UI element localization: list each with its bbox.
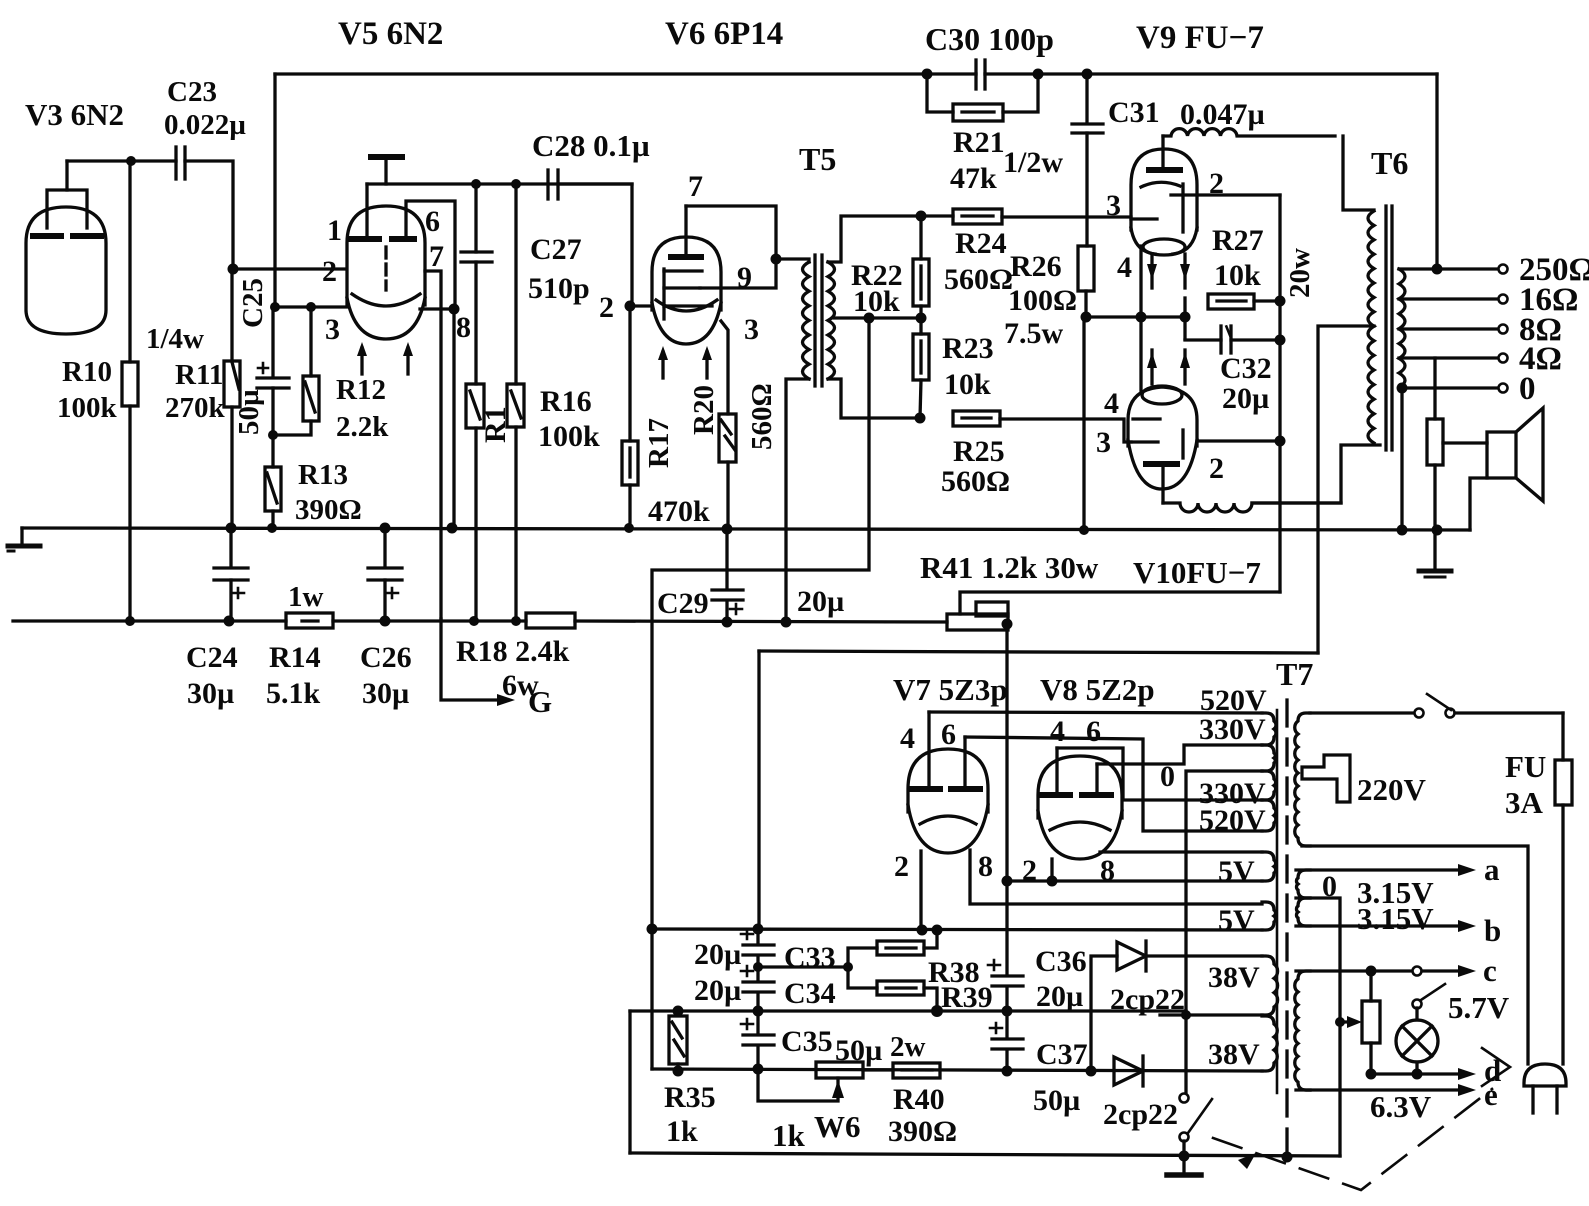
tube V6 cathode arc xyxy=(656,300,717,311)
wire V5 cathode (pin3) line xyxy=(275,305,347,308)
svg-text:1: 1 xyxy=(327,214,342,247)
wire V3 anode to C23 xyxy=(67,159,176,162)
wire V8 pin4 to 330V lower tap xyxy=(1057,748,1262,800)
svg-text:T6: T6 xyxy=(1371,145,1408,181)
svg-text:560Ω: 560Ω xyxy=(941,465,1010,498)
wire T5 secondary top lead xyxy=(828,216,921,262)
voltage selector plug 220V xyxy=(1302,755,1427,807)
svg-text:C33: C33 xyxy=(784,941,836,974)
svg-text:2cp22: 2cp22 xyxy=(1103,1098,1178,1131)
wire lamp tap d xyxy=(1366,1053,1502,1088)
resistor R35 1k xyxy=(664,1016,716,1148)
switch HT secondary bottom xyxy=(1180,1094,1213,1158)
transformer T6 secondary winding xyxy=(1399,269,1405,388)
wire V8 filament output line xyxy=(1007,879,1262,882)
svg-text:1k: 1k xyxy=(666,1115,698,1148)
svg-text:R35: R35 xyxy=(664,1081,716,1114)
svg-text:V5 6N2: V5 6N2 xyxy=(338,16,443,52)
wire T5 secondary bottom lead xyxy=(828,379,920,418)
tube V9 envelope xyxy=(1131,149,1197,255)
tube V6 heater arrows xyxy=(658,346,712,378)
svg-text:10k: 10k xyxy=(1214,259,1261,292)
pilot lamp xyxy=(1396,1008,1438,1074)
resistor R13 390 ohm xyxy=(265,435,362,528)
wire V7 pin6 to 520V lower tap xyxy=(965,737,1262,831)
wire output tap 16 ohm xyxy=(1399,282,1578,318)
tube V9 grid arc xyxy=(1141,182,1180,187)
wire V5 grid (pin2) line xyxy=(233,267,346,270)
wire screen line V9/V10 pin2 xyxy=(1278,195,1281,592)
resistor R14 5.1k 1w xyxy=(266,581,333,710)
capacitor C34 20µ xyxy=(694,966,836,1011)
tube V5 grid dashes xyxy=(384,247,387,290)
svg-text:100k: 100k xyxy=(57,392,118,424)
tube V5 envelope xyxy=(347,206,425,339)
capacitor C24 30µ xyxy=(186,528,248,710)
svg-text:V8 5Z2p: V8 5Z2p xyxy=(1040,672,1155,707)
svg-text:20µ: 20µ xyxy=(797,585,844,618)
svg-text:2: 2 xyxy=(1209,452,1224,485)
tube V9 anode bar xyxy=(1149,136,1180,170)
ground symbol speaker xyxy=(1419,530,1451,577)
wire C23 to grid line xyxy=(185,161,233,269)
tube V3 plate structure xyxy=(33,161,101,236)
svg-text:R25: R25 xyxy=(953,435,1005,468)
wire output tap 250 ohm xyxy=(1399,74,1589,288)
wire screen feed line to R41 tap xyxy=(960,592,1280,614)
svg-text:2: 2 xyxy=(1209,167,1224,200)
wire heater tap a xyxy=(1296,852,1500,887)
tube V5 plate pin1 xyxy=(327,184,379,247)
transformer T6 primary winding xyxy=(1368,211,1374,443)
wire primary bottom to plug xyxy=(1302,846,1528,1064)
wire feedback from top rail to V5 cathode line xyxy=(273,74,276,307)
capacitor C31 0.047µ xyxy=(1072,74,1265,246)
svg-text:R12: R12 xyxy=(336,374,386,406)
transformer T5 secondary winding xyxy=(828,262,835,379)
svg-text:2: 2 xyxy=(322,255,337,288)
transformer T7 primary 220V winding xyxy=(1295,713,1310,846)
tube V10 envelope xyxy=(1128,386,1197,489)
svg-text:1/4w: 1/4w xyxy=(146,323,204,355)
wire T6 primary center tap to B+ xyxy=(1318,326,1374,653)
wire 3.15V center tap 0 xyxy=(1296,898,1340,1156)
capacitor C25 50µ xyxy=(233,278,289,435)
transformer T5 core xyxy=(815,255,822,386)
svg-text:2w: 2w xyxy=(890,1031,926,1063)
tube V10 cathode bar xyxy=(1133,417,1160,420)
svg-text:V9 FU−7: V9 FU−7 xyxy=(1136,20,1264,56)
wire 6.3V top tap c xyxy=(1296,953,1497,988)
tube V10 heater-cathode stubs pin4 xyxy=(1104,317,1190,420)
svg-text:8: 8 xyxy=(456,311,471,344)
fuse FU 3A xyxy=(1505,713,1572,1064)
svg-text:R17: R17 xyxy=(643,418,675,468)
wire pin7 down to G arrow xyxy=(441,619,497,700)
tube V5 heater arrows xyxy=(357,342,413,374)
mains switch xyxy=(1415,694,1564,718)
svg-text:20µ: 20µ xyxy=(1222,382,1269,415)
svg-text:0.047µ: 0.047µ xyxy=(1180,98,1265,131)
svg-text:6: 6 xyxy=(425,205,440,238)
svg-text:C32: C32 xyxy=(1220,352,1272,385)
svg-text:T5: T5 xyxy=(799,141,836,177)
svg-text:3: 3 xyxy=(1096,426,1111,459)
transformer T7 core dashed xyxy=(1285,700,1288,1157)
B+ rail (lower left) xyxy=(13,621,947,622)
resistor R25 560 ohm xyxy=(941,411,1131,498)
tube V7 anode bars pins 4,6 xyxy=(900,718,980,789)
svg-text:C29: C29 xyxy=(657,587,709,620)
resistor R22 10k xyxy=(851,216,929,318)
wire R41 output down to V8 filament xyxy=(1005,712,1008,881)
switch pilot lamp 5.7V xyxy=(1413,984,1510,1025)
capacitor C29 20µ xyxy=(657,529,844,622)
svg-text:R18 2.4k: R18 2.4k xyxy=(456,635,570,668)
wire bias rail xyxy=(652,1069,1262,1071)
bottom rail xyxy=(630,1153,1340,1156)
svg-text:FU: FU xyxy=(1505,749,1546,784)
tube V9 grid pin2 wire xyxy=(1171,167,1280,200)
svg-text:220V: 220V xyxy=(1357,772,1427,807)
tube V9 pin3 bar and wire xyxy=(1106,184,1183,232)
wire V8 pin6 to 330V upper tap xyxy=(1097,745,1262,764)
svg-text:50µ: 50µ xyxy=(233,389,265,435)
svg-text:R41 1.2k 30w: R41 1.2k 30w xyxy=(920,550,1099,585)
transformer T7 HV winding upper xyxy=(1262,713,1276,745)
svg-text:30µ: 30µ xyxy=(362,677,409,710)
capacitor C27 510p xyxy=(461,184,590,384)
mains plug xyxy=(1524,1064,1566,1113)
svg-text:C27: C27 xyxy=(530,233,582,266)
transformer T5 primary winding xyxy=(776,259,809,262)
capacitor C36 20µ xyxy=(988,881,1087,1013)
tube V6 envelope xyxy=(652,237,721,344)
transformer T7 HV winding lower xyxy=(1262,771,1276,800)
tube V7 envelope xyxy=(908,749,988,853)
ground symbol bottom xyxy=(1167,1156,1201,1175)
capacitor C28 0.1µ xyxy=(532,128,650,199)
svg-text:510p: 510p xyxy=(528,272,590,305)
resistor R27 10k xyxy=(1185,224,1280,339)
svg-text:W6: W6 xyxy=(814,1109,861,1144)
resistor R23 10k xyxy=(913,318,994,418)
svg-text:20µ: 20µ xyxy=(694,974,741,1007)
choke V9 anode parasitic suppressor xyxy=(1163,129,1335,136)
svg-text:9: 9 xyxy=(737,261,752,294)
svg-text:c: c xyxy=(1483,953,1497,988)
svg-text:R21: R21 xyxy=(953,126,1005,159)
transformer T7 left winding spine xyxy=(1276,710,1279,1093)
svg-text:V7 5Z3p: V7 5Z3p xyxy=(893,672,1008,707)
wire 6.3V bottom tap e xyxy=(1296,1077,1498,1112)
resistor R16 100k xyxy=(507,179,600,620)
svg-text:R10: R10 xyxy=(62,356,112,388)
resistor R26 100 ohm 7.5w xyxy=(1004,246,1094,530)
svg-text:6: 6 xyxy=(1086,715,1101,748)
transformer T6 core xyxy=(1386,206,1392,450)
svg-text:C28 0.1µ: C28 0.1µ xyxy=(532,128,650,163)
svg-text:2.2k: 2.2k xyxy=(336,411,389,443)
svg-text:R39: R39 xyxy=(941,981,993,1014)
svg-text:560Ω: 560Ω xyxy=(944,263,1013,296)
svg-text:V3 6N2: V3 6N2 xyxy=(25,97,124,132)
svg-text:4: 4 xyxy=(1117,251,1132,284)
svg-text:7: 7 xyxy=(429,240,444,273)
svg-text:5.7V: 5.7V xyxy=(1448,990,1510,1025)
svg-text:20µ: 20µ xyxy=(1036,980,1083,1013)
node V3 anode junction xyxy=(126,156,136,166)
capacitor C30 100p xyxy=(925,21,1437,89)
ground symbol left xyxy=(8,528,40,551)
choke V10 anode parasitic suppressor xyxy=(1163,503,1341,512)
svg-text:1/2w: 1/2w xyxy=(1003,146,1063,179)
svg-text:3: 3 xyxy=(325,313,340,346)
svg-text:1w: 1w xyxy=(288,581,324,613)
wire T5 primary bottom lead xyxy=(786,379,809,622)
svg-text:0: 0 xyxy=(1160,760,1175,793)
svg-text:6w: 6w xyxy=(502,669,539,702)
tube V10 pin3 bar xyxy=(1096,426,1158,459)
svg-text:3A: 3A xyxy=(1505,785,1544,820)
svg-text:R27: R27 xyxy=(1212,224,1264,257)
resistor R39 xyxy=(848,967,993,1014)
svg-text:R23: R23 xyxy=(942,332,994,365)
tube V5 top cap symbol xyxy=(371,157,402,184)
wire V7 filament line xyxy=(652,929,1262,930)
wire V5 plate line xyxy=(367,182,632,185)
svg-text:R20: R20 xyxy=(688,385,720,435)
tube V5 cathode pin8 wire xyxy=(325,304,471,529)
svg-text:100Ω: 100Ω xyxy=(1008,284,1077,317)
svg-text:2cp22: 2cp22 xyxy=(1110,983,1185,1016)
svg-text:R40: R40 xyxy=(893,1083,945,1116)
tap 0 HV center xyxy=(1160,760,1262,1093)
wire T5 center tap to bias line xyxy=(652,318,869,1069)
svg-text:C30 100p: C30 100p xyxy=(925,21,1054,57)
transformer T7 5V winding 2 xyxy=(1262,902,1276,930)
diode 2cp22 upper xyxy=(1091,941,1262,1071)
capacitor C23 xyxy=(164,76,246,179)
capacitor C35 50µ xyxy=(741,1011,882,1069)
svg-text:R14: R14 xyxy=(269,641,321,674)
resistor R17 470k xyxy=(622,306,710,528)
svg-text:a: a xyxy=(1484,852,1500,887)
svg-text:R13: R13 xyxy=(298,459,348,491)
tube V8 anode bars pins 4,6 xyxy=(1042,715,1111,795)
resistor R18 2.4k 6w xyxy=(456,613,575,702)
node junction dots on ground bus xyxy=(226,523,237,534)
resistor R11 270k 1/4w xyxy=(146,269,240,528)
node B+ rail junctions xyxy=(722,617,733,628)
wire V7 pin8 filament lead xyxy=(970,850,1262,904)
wire B+ drop to filament node xyxy=(757,651,760,929)
svg-text:38V: 38V xyxy=(1208,1038,1260,1071)
resistor feedback divider at speaker xyxy=(1427,358,1443,530)
tube V8 envelope xyxy=(1038,756,1122,859)
svg-text:4: 4 xyxy=(1104,387,1119,420)
svg-text:C31: C31 xyxy=(1108,96,1160,129)
tube V10 inner electrode line xyxy=(1181,430,1184,458)
wire heater tap b xyxy=(1296,913,1501,948)
transformer T7 38V winding 2 xyxy=(1262,1016,1277,1071)
tube V9 heater-cathode stubs pin4 xyxy=(1117,246,1190,317)
wire V6 anode pin7 loop to pin9 node xyxy=(686,206,776,259)
svg-text:3: 3 xyxy=(1106,189,1121,222)
resistor R41 xyxy=(947,602,1013,712)
svg-text:5V: 5V xyxy=(1218,855,1255,888)
speaker xyxy=(1443,408,1543,530)
svg-text:5.1k: 5.1k xyxy=(266,677,321,710)
resistor R40 390 ohm 2w xyxy=(863,1031,957,1148)
svg-text:8: 8 xyxy=(978,850,993,883)
svg-text:C25: C25 xyxy=(237,278,269,328)
wire mid rail left drop xyxy=(628,1011,631,1153)
svg-text:4: 4 xyxy=(1050,715,1065,748)
wire V10 anode to T6 primary bottom xyxy=(1252,445,1380,503)
arrow G xyxy=(497,694,515,706)
capacitor C37 50µ xyxy=(990,1011,1088,1117)
svg-text:6: 6 xyxy=(941,718,956,751)
transformer T7 38V winding 1 xyxy=(1262,956,1278,1015)
wire V6 grid pin2 xyxy=(630,304,652,307)
wire V9 anode to T6 primary top xyxy=(1343,136,1374,210)
tube V5 cathode arc xyxy=(352,294,420,306)
svg-text:7: 7 xyxy=(688,170,703,203)
tube V5 plate pin6 xyxy=(392,201,455,309)
svg-text:2: 2 xyxy=(599,291,614,324)
svg-text:7.5w: 7.5w xyxy=(1004,317,1064,350)
svg-text:6.3V: 6.3V xyxy=(1370,1089,1432,1124)
wire V9/V10 cathode line xyxy=(1086,315,1187,318)
svg-text:C36: C36 xyxy=(1035,945,1087,978)
wire mid rail xyxy=(630,1009,1186,1012)
tap 38V mid to 0 line xyxy=(1160,1013,1262,1016)
svg-text:47k: 47k xyxy=(950,162,997,195)
ground bus xyxy=(22,528,1470,530)
svg-text:30µ: 30µ xyxy=(187,677,234,710)
svg-text:330V: 330V xyxy=(1199,713,1266,746)
resistor R10 xyxy=(57,161,138,620)
wire V6 cathode pin3 to R20 xyxy=(721,321,728,414)
arrowhead on dashed link xyxy=(1238,1153,1256,1169)
resistor R20 560 ohm xyxy=(688,383,778,529)
svg-text:C34: C34 xyxy=(784,977,836,1010)
resistor R24 560 ohm xyxy=(921,209,1131,296)
potentiometer W6 1k xyxy=(758,1062,863,1153)
svg-text:470k: 470k xyxy=(648,495,710,528)
connector triangle marker xyxy=(1482,1048,1510,1086)
svg-text:10k: 10k xyxy=(853,285,900,318)
svg-text:390Ω: 390Ω xyxy=(295,494,362,526)
wire top feedback rail xyxy=(275,72,976,75)
svg-text:C35: C35 xyxy=(781,1025,833,1058)
svg-text:C37: C37 xyxy=(1036,1038,1088,1071)
svg-text:10k: 10k xyxy=(944,368,991,401)
wire B+ line to T6 center tap xyxy=(759,651,1318,653)
svg-text:3: 3 xyxy=(744,313,759,346)
wire V8 pin8 filament lead xyxy=(1100,850,1262,853)
resistor R21 47k 1/2w xyxy=(927,74,1063,195)
resistor R38 xyxy=(758,930,980,989)
transformer T7 5V winding 1 xyxy=(1262,852,1276,881)
transformer T7 6.3V winding xyxy=(1295,971,1310,1090)
resistor R12 2.2k xyxy=(273,307,389,443)
svg-text:C24: C24 xyxy=(186,641,238,674)
resistor R1 xyxy=(466,384,512,620)
tube V10 anode bar xyxy=(1146,464,1177,503)
tube V5 grid2 pin7 xyxy=(425,240,444,619)
svg-text:C26: C26 xyxy=(360,641,412,674)
hum balance rheostat xyxy=(1335,971,1380,1074)
svg-text:560Ω: 560Ω xyxy=(746,383,778,450)
capacitor C26 30µ xyxy=(360,528,412,710)
svg-text:3.15V: 3.15V xyxy=(1357,901,1434,936)
svg-text:0: 0 xyxy=(1519,371,1536,407)
wire V8 pin2 filament lead xyxy=(1050,859,1053,881)
tube V6 top cap bar xyxy=(671,206,701,257)
svg-text:C23: C23 xyxy=(167,76,217,108)
svg-text:20w: 20w xyxy=(1284,248,1316,298)
wire T5 secondary center tap xyxy=(834,316,921,319)
svg-text:5V: 5V xyxy=(1218,904,1255,937)
wire V7 pin2 filament lead xyxy=(919,851,922,930)
transformer T7 3.15V winding xyxy=(1296,870,1310,898)
capacitor C33 20µ xyxy=(694,924,836,975)
svg-text:50µ: 50µ xyxy=(1033,1084,1080,1117)
wire C28 to V6 grid xyxy=(558,184,632,306)
svg-text:R16: R16 xyxy=(540,385,592,418)
svg-text:T7: T7 xyxy=(1276,656,1313,692)
svg-text:38V: 38V xyxy=(1208,961,1260,994)
svg-text:b: b xyxy=(1484,913,1501,948)
svg-text:R11: R11 xyxy=(175,359,223,391)
wire 520V top line xyxy=(929,712,1262,713)
svg-text:520V: 520V xyxy=(1199,804,1266,837)
svg-text:R24: R24 xyxy=(955,227,1007,260)
svg-text:390Ω: 390Ω xyxy=(888,1115,957,1148)
wire output tap 0 xyxy=(1397,371,1536,530)
svg-text:100k: 100k xyxy=(538,420,600,453)
wire primary top to mains switch xyxy=(1310,711,1413,714)
wire V6 pin9 (screen) xyxy=(700,259,776,288)
svg-text:20µ: 20µ xyxy=(694,938,741,971)
wire output tap 4 ohm xyxy=(1399,341,1562,377)
dashed switch link xyxy=(1213,1089,1492,1190)
svg-text:R26: R26 xyxy=(1010,250,1062,283)
diode 2cp22 lower xyxy=(1103,1056,1178,1131)
wire V7 anode pin4 lead xyxy=(927,712,930,787)
svg-text:8: 8 xyxy=(1100,854,1115,887)
svg-text:V10FU−7: V10FU−7 xyxy=(1133,555,1261,590)
tube V6 grid box xyxy=(664,269,712,319)
svg-text:270k: 270k xyxy=(165,392,226,424)
wire output tap 8 ohm xyxy=(1399,312,1562,348)
tube V10 pin2 wire xyxy=(1197,436,1286,486)
capacitor C32 20µ xyxy=(1185,326,1280,415)
svg-text:1k: 1k xyxy=(772,1118,806,1153)
svg-text:4: 4 xyxy=(900,722,915,755)
tube V3 envelope xyxy=(26,207,106,334)
svg-text:0: 0 xyxy=(1322,870,1337,903)
svg-text:2: 2 xyxy=(894,850,909,883)
svg-text:V6 6P14: V6 6P14 xyxy=(665,16,783,52)
svg-text:0.022µ: 0.022µ xyxy=(164,109,246,141)
